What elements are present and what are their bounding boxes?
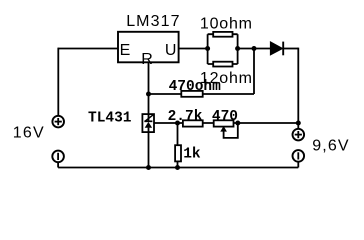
svg-text:TL431: TL431 bbox=[88, 111, 132, 127]
svg-text:E: E bbox=[120, 42, 131, 59]
svg-text:470: 470 bbox=[212, 109, 238, 125]
svg-text:1k: 1k bbox=[183, 147, 201, 163]
junction node A bbox=[205, 46, 210, 51]
wire parallel branch left vertical bbox=[207, 34, 209, 64]
junction node E bbox=[175, 121, 180, 126]
wire input minus stub bbox=[57, 162, 59, 167]
wire TL431 ref to divider node bbox=[154, 122, 298, 124]
wire right rail down to output plus terminal bbox=[297, 48, 299, 129]
resistor 10ohm body bbox=[213, 32, 232, 37]
svg-text:LM317: LM317 bbox=[126, 13, 180, 30]
resistor 12ohm body bbox=[213, 62, 232, 67]
wire potentiometer wiper loop bbox=[224, 123, 238, 138]
svg-text:9,6V: 9,6V bbox=[312, 138, 349, 155]
wire 1k vertical bbox=[177, 123, 179, 168]
junction node G bbox=[296, 121, 301, 126]
wire 470ohm branch horizontal bbox=[149, 93, 255, 95]
resistor 2.7k body bbox=[183, 120, 203, 126]
shunt reference TL431 bbox=[142, 114, 154, 132]
junction node C bbox=[252, 46, 257, 51]
svg-text:2.7k: 2.7k bbox=[168, 109, 203, 125]
svg-text:U: U bbox=[165, 42, 177, 59]
wire node B to diode anode bbox=[238, 48, 271, 50]
wire parallel branch right vertical bbox=[237, 34, 239, 64]
svg-text:R: R bbox=[141, 51, 153, 68]
regulator U1 LM317 body bbox=[118, 32, 179, 63]
output plus terminal bbox=[293, 129, 305, 141]
diode D1 cathode bar bbox=[282, 42, 284, 56]
resistor 1k body bbox=[175, 145, 181, 161]
wire bottom branch bbox=[208, 63, 238, 65]
input plus terminal bbox=[52, 116, 64, 128]
wire output minus stub bbox=[297, 162, 299, 168]
junction node H bbox=[146, 165, 151, 170]
wire R pin down to TL431 cathode bbox=[148, 62, 150, 121]
wire left rail down to input plus terminal bbox=[57, 48, 59, 116]
wire E pin to left rail bbox=[58, 48, 118, 50]
svg-text:10ohm: 10ohm bbox=[200, 15, 253, 32]
wire top branch bbox=[208, 33, 238, 35]
junction node D bbox=[146, 92, 151, 97]
input minus terminal bbox=[52, 151, 64, 163]
junction node I bbox=[175, 165, 180, 170]
diode D1 triangle bbox=[270, 42, 282, 55]
resistor 470ohm body bbox=[181, 91, 202, 97]
junction node B bbox=[235, 46, 240, 51]
wire U pin to parallel node A bbox=[179, 48, 208, 50]
junction node F bbox=[235, 121, 240, 126]
wire ground rail bbox=[58, 167, 298, 169]
svg-text:470ohm: 470ohm bbox=[169, 79, 222, 95]
potentiometer 470 wiper arrow bbox=[220, 126, 227, 132]
svg-text:16V: 16V bbox=[13, 124, 45, 141]
wire TL431 anode down to ground rail bbox=[148, 128, 150, 168]
wire 470ohm riser to node C bbox=[253, 49, 255, 95]
output minus terminal bbox=[293, 150, 305, 162]
wire diode cathode to right corner bbox=[283, 48, 298, 50]
potentiometer 470 body bbox=[214, 120, 234, 126]
